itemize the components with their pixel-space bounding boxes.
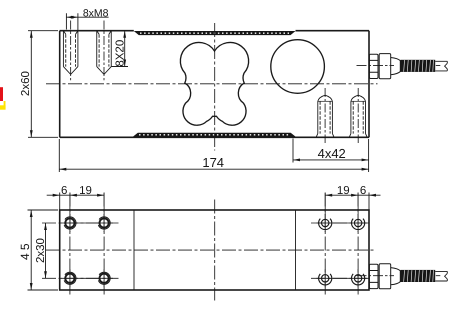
svg-text:4x42: 4x42 <box>318 146 346 161</box>
svg-text:2x60: 2x60 <box>20 71 32 96</box>
svg-text:8X20: 8X20 <box>115 40 127 67</box>
svg-text:2x30: 2x30 <box>35 238 47 263</box>
svg-text:6: 6 <box>61 185 67 197</box>
svg-text:174: 174 <box>202 155 224 170</box>
svg-text:19: 19 <box>337 185 350 197</box>
svg-text:8xM8: 8xM8 <box>83 7 109 19</box>
svg-text:19: 19 <box>79 185 92 197</box>
svg-text:6: 6 <box>360 185 366 197</box>
